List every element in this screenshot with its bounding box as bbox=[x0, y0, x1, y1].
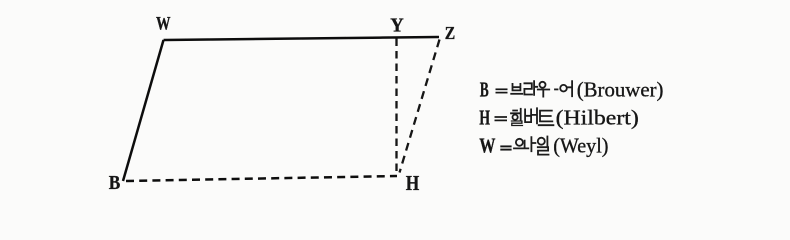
svg-text:W: W bbox=[479, 134, 496, 158]
wire: diagonal Z to H (dashed) bbox=[400, 40, 440, 173]
svg-text:B: B bbox=[109, 172, 121, 194]
svg-text:H: H bbox=[479, 106, 490, 130]
hangul BEU (brouwer syllable 1) bbox=[511, 84, 522, 94]
equals sign bbox=[495, 117, 508, 120]
hangul RA (brouwer syllable 2) bbox=[524, 81, 537, 95]
svg-text:B: B bbox=[480, 78, 489, 102]
svg-text:Z: Z bbox=[445, 23, 456, 43]
svg-text:H: H bbox=[406, 171, 420, 195]
hangul BEO (hilbert syllable 2) bbox=[525, 108, 537, 123]
hangul HIL (hilbert syllable 1) bbox=[511, 109, 522, 126]
svg-text:W: W bbox=[156, 13, 171, 34]
equals sign bbox=[496, 89, 508, 92]
hangul TEU (hilbert syllable 3) bbox=[539, 111, 554, 126]
svg-text:(Brouwer): (Brouwer) bbox=[577, 78, 664, 102]
hangul EO (brouwer syllable 4) bbox=[560, 81, 572, 96]
svg-text:(Weyl): (Weyl) bbox=[553, 134, 608, 158]
hangul IL (weyl syllable 2) bbox=[538, 137, 549, 155]
wire: vertical Y to H (dashed) bbox=[395, 39, 397, 174]
svg-text:(Hilbert): (Hilbert) bbox=[556, 106, 639, 130]
svg-text:Y: Y bbox=[390, 15, 404, 37]
wire: left edge W to B (solid) bbox=[123, 40, 164, 181]
wire: bottom edge B to H (dashed) bbox=[126, 176, 397, 181]
wire: top edge W to Z (solid) bbox=[164, 37, 440, 40]
equals sign bbox=[500, 146, 511, 149]
hangul WA (weyl syllable 1) bbox=[514, 137, 535, 151]
stray dash between syllables bbox=[555, 88, 558, 90]
hangul U (brouwer syllable 3) bbox=[538, 82, 549, 97]
